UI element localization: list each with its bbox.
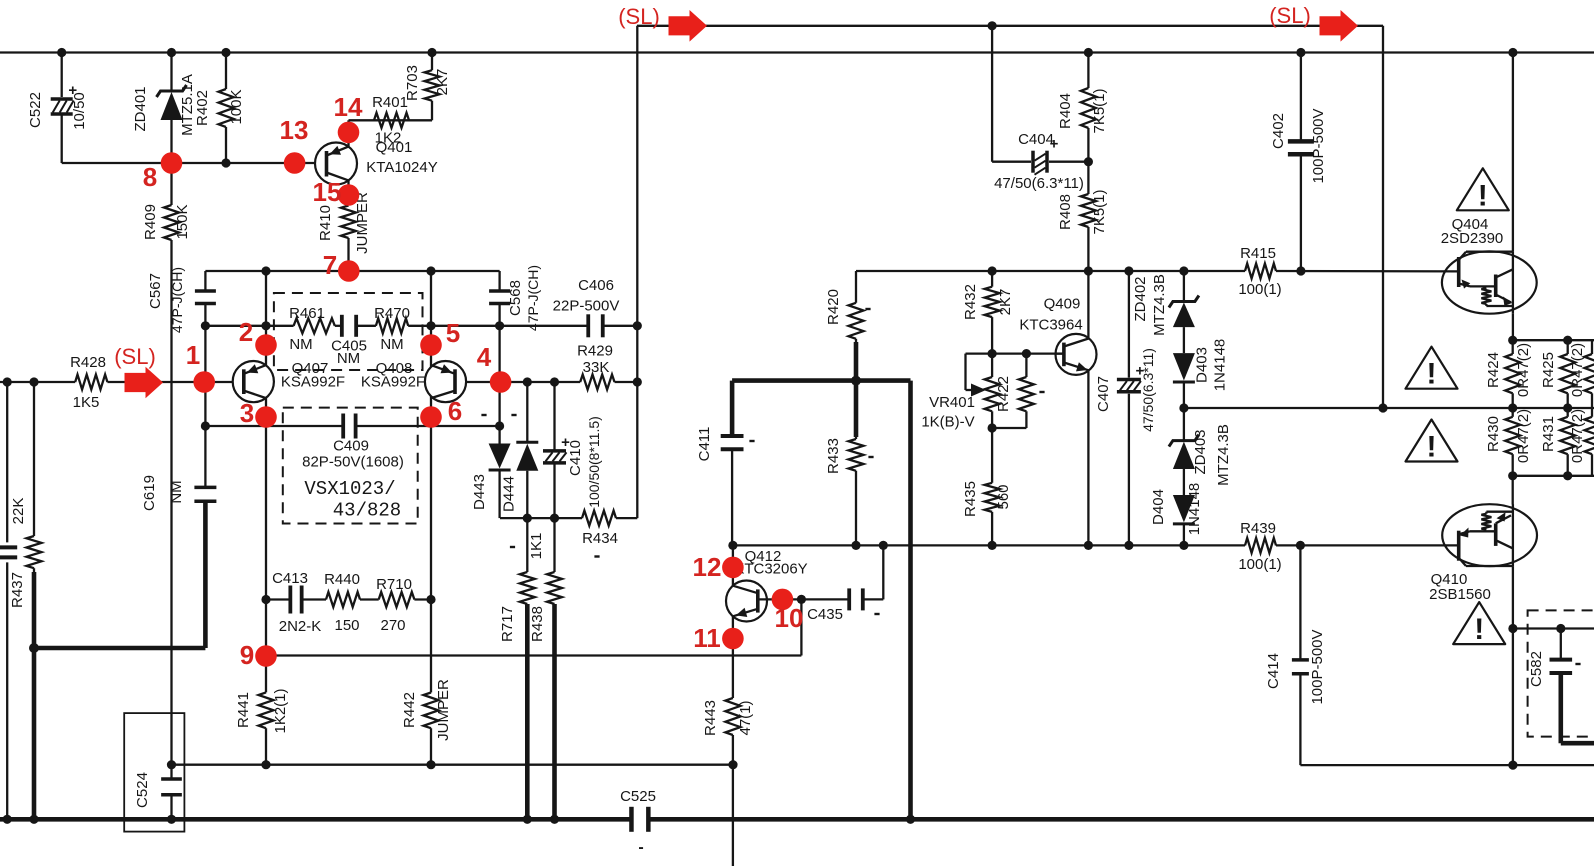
warning triangle Q410 (1453, 602, 1505, 644)
transistor Q408 KSA992F (425, 361, 466, 402)
diode D443 (489, 444, 511, 469)
wire Q412 collector column (732, 545, 734, 585)
junction dots y325 row (201, 321, 210, 330)
svg-text:VR401: VR401 (929, 394, 975, 411)
wire R437 column (33, 382, 35, 536)
svg-text:2K7: 2K7 (997, 289, 1014, 316)
capacitor C525 (629, 807, 634, 832)
svg-text:R429: R429 (577, 343, 613, 360)
junction dots right rail (988, 266, 997, 275)
node 9 (255, 645, 277, 667)
transistor Q409 KTC3964 (1056, 334, 1097, 375)
node 11 (722, 628, 744, 650)
svg-text:C582: C582 (1528, 651, 1545, 687)
resistor R408 7K5(1) (1081, 194, 1096, 227)
resistor R433 (849, 439, 864, 471)
svg-text:KTC3206Y: KTC3206Y (734, 561, 807, 578)
svg-text:15: 15 (313, 177, 342, 207)
svg-text:2SB1560: 2SB1560 (1429, 586, 1491, 603)
junction dot VR401 bottom (988, 423, 997, 432)
wire D444 / R717 column (526, 382, 528, 442)
wire y765 left (172, 764, 734, 766)
svg-text:R428: R428 (70, 354, 106, 371)
junction dots input line (3, 377, 12, 386)
resistor R430 0R47(2) (1505, 417, 1520, 454)
svg-text:10/50: 10/50 (71, 92, 88, 130)
svg-text:7K5(1): 7K5(1) (1091, 189, 1108, 234)
wire C404 link (992, 161, 1031, 163)
transistor Q412 KTC3206Y (726, 581, 767, 622)
wire ZD401 column (170, 53, 172, 91)
warning triangle Q404 (1457, 168, 1509, 210)
wire C522 column (61, 53, 63, 98)
svg-text:C435: C435 (807, 606, 843, 623)
svg-text:C414: C414 (1265, 653, 1282, 689)
resistor R429 33K (580, 375, 614, 390)
wire Q410 collector column (1512, 566, 1514, 628)
resistor R470 NM (376, 318, 408, 333)
svg-text:!: ! (1427, 431, 1437, 464)
svg-text:JUMPER: JUMPER (435, 679, 452, 741)
wire C582 thick bottom (1561, 741, 1594, 746)
wire C410 / R438 column (553, 382, 555, 451)
svg-text:13: 13 (280, 115, 309, 145)
svg-text:R435: R435 (962, 481, 979, 517)
wire diode bottom row y518 (500, 517, 582, 519)
svg-text:NM: NM (380, 336, 403, 353)
svg-text:ZD401: ZD401 (132, 86, 149, 131)
resistor R441 1K2(1) (259, 692, 274, 728)
wire output node line y408 (1184, 407, 1594, 409)
resistor R717 (520, 572, 535, 604)
wire zener diode column (1183, 271, 1185, 301)
svg-text:1K5: 1K5 (73, 394, 100, 411)
svg-text:R401: R401 (372, 94, 408, 111)
capacitor C409 (341, 414, 345, 439)
svg-text:2K7: 2K7 (434, 69, 451, 96)
wire bottom ground bus (0, 817, 631, 822)
transistor Q410 2SB1560 (1442, 504, 1537, 566)
svg-text:R461: R461 (289, 305, 325, 322)
wire C413 row (266, 598, 290, 600)
wire C406/R429/R434 right column (636, 26, 638, 518)
capacitor C410 100/50 (543, 449, 566, 453)
resistor R432 2K7 (985, 287, 1000, 317)
transistor Q404 2SD2390 (1442, 251, 1537, 313)
svg-text:47/50(6.3*11): 47/50(6.3*11) (994, 175, 1084, 192)
wire Q409 base (992, 352, 1064, 354)
svg-text:1: 1 (186, 340, 200, 370)
resistor R434 (582, 511, 616, 526)
svg-text:R470: R470 (374, 305, 410, 322)
capacitor C413 2N2-K (288, 586, 292, 614)
svg-text:R425: R425 (1540, 352, 1557, 388)
wire node-8 line (62, 162, 315, 164)
wire Q401 emitter column (347, 120, 349, 146)
resistor R410 JUMPER (341, 206, 356, 239)
svg-text:0R47(2): 0R47(2) (1569, 409, 1586, 463)
svg-text:D403: D403 (1194, 347, 1211, 383)
svg-text:C525: C525 (620, 788, 656, 805)
svg-text:C406: C406 (578, 277, 614, 294)
svg-text:C413: C413 (272, 570, 308, 587)
svg-text:0R47(2): 0R47(2) (1515, 343, 1532, 397)
capacitor C404 47/50 (1031, 151, 1035, 173)
svg-text:1K1: 1K1 (528, 533, 545, 560)
wire R424 mid column (1512, 340, 1514, 354)
svg-text:ZD403: ZD403 (1192, 429, 1209, 474)
transistor Q407 KSA992F (233, 361, 274, 402)
wire VR401 wiper (966, 352, 993, 354)
svg-text:47P-J(CH): 47P-J(CH) (169, 267, 185, 333)
warning triangle R424 (1406, 347, 1458, 389)
capacitor C406 22P-500V (586, 314, 590, 337)
capacitor C414 100P-500V (1292, 658, 1309, 662)
junction dots node-7 rail (261, 266, 270, 275)
svg-text:C411: C411 (696, 427, 713, 462)
junction dot left thick corner (29, 643, 39, 653)
svg-text:7K5(1): 7K5(1) (1091, 88, 1108, 133)
svg-text:VSX1023/: VSX1023/ (304, 478, 395, 500)
wire R432 column (991, 271, 993, 287)
zener diode ZD403 MTZ4.3B (1169, 435, 1199, 447)
junction dot C404 right (1084, 157, 1093, 166)
wire Q404 collector column (1512, 53, 1514, 252)
svg-text:22P-500V: 22P-500V (553, 298, 620, 315)
resistor R435 560 (985, 483, 1000, 512)
svg-text:R408: R408 (1057, 194, 1074, 230)
dashed box C409/VSX (283, 408, 418, 524)
junction dots bottom bus (3, 815, 12, 824)
svg-text:MTZ4.3B: MTZ4.3B (1151, 274, 1168, 336)
svg-text:R438: R438 (529, 606, 546, 642)
wire C411 column (730, 381, 735, 436)
svg-text:150: 150 (334, 617, 359, 634)
node 14 (338, 122, 360, 144)
wire C435 right column (882, 545, 884, 599)
svg-text:5: 5 (446, 318, 460, 348)
resistor R415 100(1) (1245, 264, 1276, 279)
svg-text:11: 11 (693, 623, 721, 653)
junction dot SL/C404 (988, 21, 997, 30)
wire right rail to Q404 base (856, 270, 1245, 272)
svg-text:8: 8 (143, 162, 157, 192)
capacitor C407 47/50 (1117, 378, 1141, 382)
capacitor C405 NM (340, 315, 344, 337)
junction dots output line (1179, 403, 1188, 412)
svg-text:D444: D444 (501, 476, 518, 512)
resistor third emitter pair (1585, 354, 1594, 393)
svg-text:560: 560 (995, 484, 1012, 509)
svg-text:R430: R430 (1485, 416, 1502, 452)
node 4 (490, 371, 512, 393)
svg-text:C522: C522 (27, 92, 44, 128)
svg-text:100K: 100K (228, 89, 245, 124)
wire Q408 base line (466, 381, 580, 383)
junction dots Q408 base line (523, 377, 532, 386)
svg-text:2SD2390: 2SD2390 (1441, 230, 1504, 247)
node 8 (161, 152, 183, 174)
resistor R420 (849, 303, 864, 339)
svg-text:1K(B)-V: 1K(B)-V (921, 414, 974, 431)
svg-text:C619: C619 (141, 475, 158, 511)
resistor R424 0R47(2) (1505, 354, 1520, 393)
wire Q407 collector column (265, 271, 267, 365)
junction dots diode row (523, 514, 532, 523)
wire C568 / node4 / D443 column (498, 271, 500, 291)
resistor R443 47(1) (725, 698, 740, 735)
wire C407 column (1128, 271, 1130, 378)
svg-text:12: 12 (693, 552, 722, 582)
svg-text:C407: C407 (1095, 376, 1112, 412)
svg-text:0R47(2): 0R47(2) (1515, 409, 1532, 463)
junction dot C435 left (797, 595, 806, 604)
svg-text:R409: R409 (142, 204, 159, 240)
svg-text:7: 7 (323, 250, 337, 280)
svg-text:R443: R443 (702, 700, 719, 736)
svg-text:(SL): (SL) (1269, 3, 1311, 28)
svg-text:NM: NM (168, 480, 185, 503)
svg-text:82P-50V(1608): 82P-50V(1608) (302, 454, 404, 471)
box C524 (124, 713, 184, 832)
wire R703 column (431, 53, 433, 71)
wire C406 row (500, 325, 589, 327)
svg-text:R402: R402 (194, 90, 211, 126)
svg-text:R440: R440 (324, 571, 360, 588)
svg-text:C402: C402 (1270, 113, 1287, 149)
wire C414 column (1299, 545, 1301, 660)
wire Q404 emitter column (1512, 314, 1514, 341)
wire R404/R408/Q409 column (1087, 53, 1089, 89)
wire Q412 base line (758, 598, 849, 600)
svg-text:KSA992F: KSA992F (361, 374, 425, 391)
wire node-7 rail (205, 270, 499, 272)
svg-text:1N4148: 1N4148 (1212, 339, 1229, 392)
zener diode ZD402 MTZ4.3B (1169, 296, 1199, 308)
svg-text:R437: R437 (9, 572, 26, 608)
svg-text:KTC3964: KTC3964 (1019, 317, 1082, 334)
wire Q408 emitter / R442 column (430, 397, 432, 426)
svg-text:R433: R433 (825, 438, 842, 474)
svg-text:270: 270 (380, 617, 405, 634)
svg-text:4: 4 (477, 342, 492, 372)
wire R401 top line (349, 119, 433, 121)
wire thick mid drop column (908, 381, 913, 820)
svg-text:R439: R439 (1240, 520, 1276, 537)
resistor R401 1K2 (374, 113, 409, 128)
polarity tick marks (481, 414, 486, 416)
wire (SL) signal line top (637, 25, 1383, 27)
wire top supply bus (0, 51, 1594, 53)
junction dots mid line (728, 541, 737, 550)
red arrow input (SL) (125, 367, 164, 399)
svg-text:C568: C568 (507, 280, 524, 316)
resistor R439 100(1) (1245, 538, 1276, 553)
junction dots top bus (57, 48, 66, 57)
wire mid line to Q410 base (733, 544, 1245, 546)
svg-text:KTA1024Y: KTA1024Y (366, 159, 437, 176)
svg-text:NM: NM (337, 350, 360, 367)
wire node-9 feedback line (266, 654, 801, 656)
wire Q407 emitter column (265, 398, 267, 426)
dashed box NM network (274, 293, 423, 370)
svg-text:R415: R415 (1240, 245, 1276, 262)
svg-text:C524: C524 (134, 772, 151, 808)
node 15 (338, 184, 360, 206)
resistor R440 150 (326, 592, 360, 607)
resistor R428 1K5 (75, 375, 107, 390)
capacitor C523 (0, 545, 17, 549)
svg-text:!: ! (1427, 358, 1437, 391)
node 2 (255, 334, 277, 356)
wire Q408 collector column (430, 271, 432, 367)
svg-text:Q401: Q401 (376, 139, 413, 156)
svg-text:R404: R404 (1057, 93, 1074, 129)
wire R422 column (1025, 354, 1027, 377)
node 5 (420, 334, 442, 356)
svg-text:14: 14 (334, 92, 363, 122)
diode D404 1N4148 (1173, 495, 1195, 522)
wire thick mid rail y380 (732, 378, 910, 383)
resistor R461 NM (294, 318, 335, 333)
svg-text:R424: R424 (1485, 352, 1502, 388)
svg-text:100P-500V: 100P-500V (1310, 108, 1327, 183)
svg-text:Q409: Q409 (1044, 296, 1081, 313)
resistor R402 100K (219, 89, 234, 127)
node 6 (420, 406, 442, 428)
svg-text:C404: C404 (1018, 131, 1054, 148)
wire R433 column (854, 381, 859, 437)
capacitor C522 (51, 97, 73, 101)
svg-text:(SL): (SL) (618, 4, 660, 29)
wire Q401 collector / R410 column (347, 180, 349, 205)
warning triangle R430 (1406, 420, 1458, 462)
zener diode ZD401 (157, 85, 187, 97)
svg-text:3: 3 (240, 398, 254, 428)
svg-text:(SL): (SL) (114, 344, 156, 369)
wire emitter line y426 (205, 425, 343, 427)
wire R425 column (1567, 340, 1569, 354)
node 10 (772, 589, 794, 611)
red arrow (SL) top right (1320, 10, 1359, 42)
diode D444 (516, 441, 538, 444)
svg-text:100/50(8*11.5): 100/50(8*11.5) (586, 416, 602, 508)
junction dot node8 line R402 (221, 158, 230, 167)
svg-text:R703: R703 (404, 65, 421, 101)
svg-text:100(1): 100(1) (1238, 556, 1281, 573)
svg-text:KSA992F: KSA992F (281, 374, 345, 391)
svg-text:22K: 22K (10, 498, 27, 525)
svg-text:R420: R420 (825, 289, 842, 325)
svg-text:C410: C410 (567, 440, 584, 476)
svg-text:100P-500V: 100P-500V (1309, 629, 1326, 704)
wire y765 right (1300, 764, 1594, 766)
wire Q410 emitter column (1512, 476, 1514, 505)
junction dots emitter line (201, 421, 210, 430)
capacitor C567 (195, 289, 216, 293)
svg-text:D443: D443 (471, 474, 488, 510)
svg-text:R422: R422 (995, 376, 1012, 412)
dashed box C582 (1528, 610, 1594, 736)
resistor R422 (1019, 377, 1034, 411)
svg-text:10: 10 (775, 603, 804, 633)
resistor R710 270 (379, 592, 415, 607)
resistor R438 1K1 (547, 572, 562, 604)
wire SL drop to C404 (991, 26, 993, 162)
capacitor C582 (1550, 658, 1573, 662)
svg-text:MTZ4.3B: MTZ4.3B (1215, 424, 1232, 486)
junction dots y765 left (167, 760, 176, 769)
svg-text:!: ! (1474, 613, 1484, 646)
svg-text:R431: R431 (1540, 416, 1557, 452)
junction dots emitter resistor rows (1508, 336, 1517, 345)
junction dot R420 thick (851, 376, 861, 386)
svg-text:C567: C567 (147, 273, 164, 309)
junction dots Q409 base (988, 349, 997, 358)
resistor R425 0R47(2) (1560, 354, 1575, 393)
capacitor C524 (161, 777, 182, 781)
capacitor C402 100P-500V (1288, 139, 1314, 144)
transistor Q401 KTA1024Y (315, 143, 357, 185)
capacitor C568 (489, 289, 510, 293)
svg-text:1N4148: 1N4148 (1186, 483, 1203, 536)
svg-text:0R47(2): 0R47(2) (1569, 343, 1586, 397)
node 1 (193, 371, 215, 393)
junction dot y765 right (1508, 761, 1517, 770)
svg-text:150K: 150K (174, 204, 191, 239)
wire C582 column (1560, 629, 1562, 660)
svg-text:47/50(6.3*11): 47/50(6.3*11) (1140, 348, 1156, 432)
wire thick left link y648 (34, 646, 205, 651)
node 12 (722, 557, 744, 579)
wire emitter resistor bottom row (1513, 475, 1594, 477)
wire C402 column (1300, 53, 1302, 142)
svg-text:2: 2 (239, 317, 253, 347)
svg-text:47(1): 47(1) (737, 700, 754, 735)
capacitor C435 (847, 588, 851, 610)
svg-text:R441: R441 (235, 692, 252, 728)
wire VR401 column (991, 354, 993, 377)
svg-text:NM: NM (289, 336, 312, 353)
node 3 (255, 406, 277, 428)
svg-text:100(1): 100(1) (1238, 281, 1281, 298)
resistor R431 0R47(2) (1560, 417, 1575, 454)
resistor R404 7K5(1) (1081, 88, 1096, 128)
svg-text:43/828: 43/828 (333, 500, 401, 522)
wire R402 column (225, 53, 227, 90)
node 13 (284, 152, 306, 174)
wire R409/C524 column (170, 163, 172, 205)
resistor R442 JUMPER (424, 693, 439, 729)
svg-text:33K: 33K (583, 359, 610, 376)
diode D403 1N4148 (1173, 353, 1195, 380)
wire emitter resistor top row (1513, 339, 1594, 341)
wire Q412 emitter / R443 column (732, 616, 734, 698)
svg-text:R717: R717 (499, 606, 516, 642)
wire R420 column (855, 271, 857, 303)
svg-text:6: 6 (448, 396, 462, 426)
junction dot C582 row (1556, 624, 1565, 633)
potentiometer VR401 1K(B)-V (985, 377, 1000, 411)
capacitor C411 (721, 434, 744, 438)
wire (SL) drop to output (1382, 26, 1384, 408)
red arrow (SL) top left (669, 10, 708, 42)
svg-text:1K2(1): 1K2(1) (272, 688, 289, 733)
resistor R437 22K (27, 536, 42, 568)
svg-text:R710: R710 (376, 576, 412, 593)
svg-text:R410: R410 (317, 205, 334, 241)
wire C582 row (1513, 627, 1594, 629)
